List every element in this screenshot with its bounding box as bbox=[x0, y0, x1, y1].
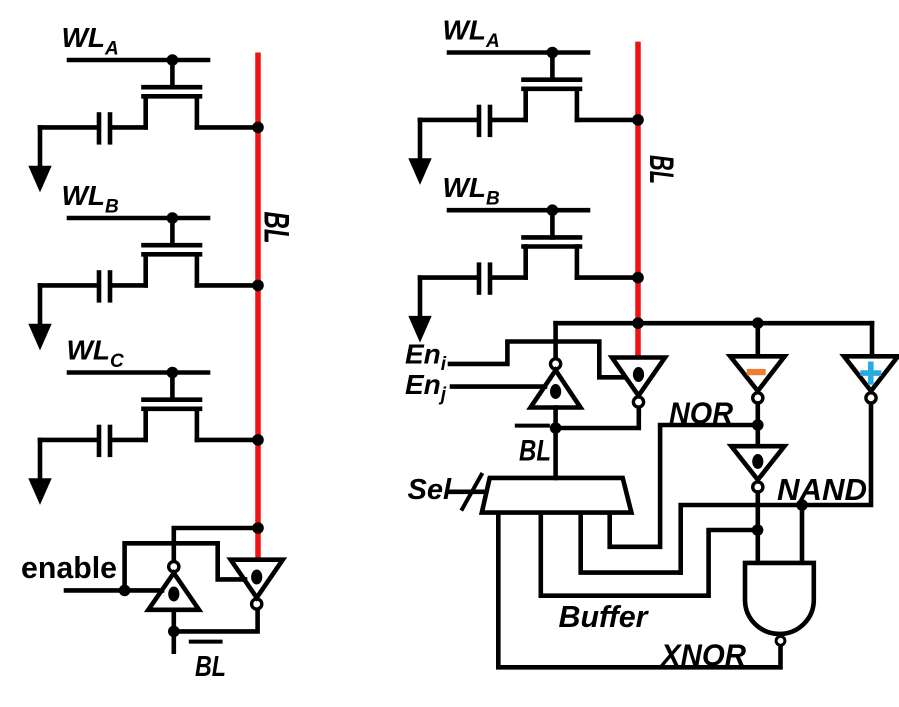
wire transistor to bitline A-left bbox=[197, 125, 258, 130]
tristate inverter U2 body dot bbox=[251, 570, 262, 585]
transistor MA-left gate bar bbox=[144, 85, 201, 90]
plus buffer U6 output bubble bbox=[866, 393, 876, 403]
wire transistor to bitline B-left bbox=[197, 283, 258, 288]
U7 output to NAND gate wire bbox=[755, 493, 760, 563]
minus buffer U5 minus sign bbox=[747, 369, 766, 375]
gate junction node C-left bbox=[167, 367, 179, 379]
transistor MA-right gate bar bbox=[524, 77, 581, 82]
wire ground to cap B-right bbox=[420, 275, 477, 280]
transistor MB-left gate bar bbox=[144, 243, 201, 248]
gate junction node B-left bbox=[167, 212, 179, 224]
NAND gate G1 bbox=[745, 563, 814, 634]
bitline junction node B-left bbox=[252, 280, 264, 292]
label BLbar (right) bbox=[519, 435, 551, 468]
plus buffer U6 plus sign bbox=[860, 362, 881, 385]
ground stem C-left bbox=[38, 440, 43, 478]
label WL_A (right) bbox=[443, 15, 500, 53]
label NAND bbox=[777, 472, 867, 507]
svg-text:enable: enable bbox=[21, 550, 117, 585]
transistor MB-right channel bar bbox=[524, 244, 581, 249]
transistor MB-right gate bar bbox=[524, 235, 581, 240]
XNOR output wire bbox=[498, 513, 780, 668]
ground stem A-left bbox=[38, 127, 43, 165]
rail corner to plus buffer bbox=[870, 323, 875, 356]
capacitor CA-right left plate bbox=[477, 107, 482, 135]
buffer tap junction bbox=[752, 524, 764, 536]
tristate inverter U4 (down, on BL) bbox=[612, 358, 665, 396]
capacitor CC-left right plate bbox=[108, 427, 113, 455]
label Sel bbox=[408, 474, 452, 506]
rail wire BL to keeper/ops bbox=[556, 321, 872, 326]
ground arrow B-right bbox=[408, 316, 431, 343]
transistor MB-right source drop wire bbox=[523, 247, 528, 278]
tristate inverter U4 body dot bbox=[633, 367, 644, 382]
gate stem wire C-left bbox=[170, 373, 175, 400]
keeper bottom stem wire bbox=[172, 610, 177, 652]
label En_i bbox=[405, 339, 447, 376]
ground arrow B-left bbox=[28, 324, 51, 351]
label WL_A (left) bbox=[62, 22, 119, 60]
ground arrow A-right bbox=[408, 158, 431, 185]
NAND net to mux wire bbox=[581, 513, 681, 573]
label WL_B (right) bbox=[443, 172, 501, 210]
buffer tap wire bbox=[541, 513, 758, 596]
tristate inverter U3 (up) bbox=[531, 370, 581, 407]
plus buffer U6 (down) bbox=[844, 356, 898, 391]
En_j wire bbox=[452, 384, 545, 389]
transistor MB-left drain drop wire bbox=[195, 254, 200, 285]
tristate inverter U1 body dot bbox=[168, 587, 179, 602]
bit line BL (right, red) bbox=[635, 42, 641, 358]
gate junction node B-right bbox=[547, 204, 559, 216]
svg-text:BL: BL bbox=[195, 651, 226, 683]
capacitor CC-left left plate bbox=[97, 427, 102, 455]
inverter U7 body dot bbox=[752, 454, 763, 469]
wire cap to transistor A-left bbox=[112, 125, 146, 130]
capacitor CB-right left plate bbox=[477, 265, 482, 293]
enable routing wire to U2 bbox=[125, 543, 245, 590]
wire transistor to bitline A-right bbox=[577, 118, 638, 123]
wire ground to cap B-left bbox=[40, 283, 97, 288]
wire cap to transistor A-right bbox=[492, 118, 526, 123]
ground stem B-left bbox=[38, 285, 43, 323]
gate stem wire A-left bbox=[170, 60, 175, 87]
rail to U3 bubble wire bbox=[553, 323, 558, 357]
svg-text:NAND: NAND bbox=[777, 472, 867, 507]
rail junction at minus buffer bbox=[752, 317, 764, 329]
ground arrow A-left bbox=[28, 166, 51, 193]
rail junction on BL bbox=[632, 317, 644, 329]
BLbar node junction bbox=[550, 422, 562, 434]
enable wire bbox=[66, 588, 162, 593]
Sel wire bbox=[450, 489, 487, 494]
NAND net junction bbox=[796, 499, 808, 511]
NOR node junction bbox=[752, 419, 764, 431]
bitline junction node A-right bbox=[632, 114, 644, 126]
svg-text:Buffer: Buffer bbox=[559, 599, 650, 634]
transistor MB-left source drop wire bbox=[143, 254, 148, 285]
minus buffer stem bbox=[755, 323, 760, 356]
keeper junction on BL bbox=[252, 522, 264, 534]
wire cap to transistor B-left bbox=[112, 283, 146, 288]
tristate inverter U2 output bubble bbox=[252, 599, 262, 609]
tristate inverter U1 output bubble bbox=[169, 562, 179, 572]
label NOR bbox=[669, 396, 734, 431]
bitline junction node A-left bbox=[252, 122, 264, 134]
ground stem B-right bbox=[418, 278, 423, 316]
keeper BLbar node bbox=[168, 626, 180, 638]
word line C-left bbox=[69, 370, 208, 375]
word line B-left bbox=[69, 216, 208, 221]
label XNOR bbox=[659, 638, 746, 673]
capacitor CA-left right plate bbox=[108, 115, 113, 143]
BLbar to mux input wire bbox=[553, 428, 558, 478]
wire transistor to bitline C-left bbox=[197, 438, 258, 443]
word line A-right bbox=[449, 50, 588, 55]
svg-text:BL: BL bbox=[642, 155, 680, 184]
transistor MA-left source drop wire bbox=[143, 96, 148, 127]
transistor MC-left source drop wire bbox=[143, 409, 148, 440]
wire BLbar to U4 output bbox=[556, 408, 639, 428]
keeper wire BLbar to U2 output bbox=[174, 610, 258, 631]
transistor MA-right drain drop wire bbox=[575, 89, 580, 120]
label WL_C (left) bbox=[67, 335, 125, 373]
capacitor CA-right right plate bbox=[488, 107, 493, 135]
bitline junction node B-right bbox=[632, 272, 644, 284]
transistor MB-right drain drop wire bbox=[575, 247, 580, 278]
enable junction node bbox=[119, 585, 131, 597]
word line B-right bbox=[449, 208, 588, 213]
capacitor CB-right right plate bbox=[488, 265, 493, 293]
gate junction node A-left bbox=[167, 54, 179, 66]
wire ground to cap C-left bbox=[40, 438, 97, 443]
transistor MA-right source drop wire bbox=[523, 89, 528, 120]
tristate inverter U3 output bubble bbox=[551, 359, 561, 369]
transistor MC-left channel bar bbox=[144, 406, 201, 411]
overbar of BLbar label (right) bbox=[517, 424, 548, 428]
wire ground to cap A-right bbox=[420, 118, 477, 123]
wire transistor to bitline B-right bbox=[577, 275, 638, 280]
gate stem wire A-right bbox=[550, 53, 555, 80]
transistor MA-left drain drop wire bbox=[195, 96, 200, 127]
minus output to NOR node wire bbox=[755, 404, 760, 447]
transistor MC-left gate bar bbox=[144, 397, 201, 402]
NAND gate right input wire bbox=[800, 505, 805, 563]
tristate inverter U2 (down) bbox=[231, 560, 283, 598]
label WL_B (left) bbox=[62, 180, 120, 218]
gate stem wire B-left bbox=[170, 218, 175, 245]
label BL rotated (left) bbox=[257, 212, 296, 244]
inverter U7 (down) bbox=[731, 446, 784, 480]
transistor MB-left channel bar bbox=[144, 252, 201, 257]
minus buffer U5 (down) bbox=[730, 356, 784, 391]
ground stem A-right bbox=[418, 120, 423, 158]
label Buffer bbox=[559, 599, 650, 634]
mux M1 (trapezoid) bbox=[482, 478, 632, 513]
bit line BL (left, red) bbox=[255, 53, 261, 560]
keeper feedback wire top bbox=[174, 528, 258, 560]
label BL rotated (right) bbox=[642, 155, 680, 184]
capacitor CB-left right plate bbox=[108, 273, 113, 301]
wire cap to transistor C-left bbox=[112, 438, 146, 443]
NOR routing wire to mux bbox=[610, 425, 758, 547]
ground arrow C-left bbox=[28, 478, 51, 505]
transistor MA-right channel bar bbox=[524, 87, 581, 92]
inverter U7 output bubble bbox=[753, 482, 763, 492]
svg-text:BL: BL bbox=[257, 212, 296, 244]
Sel bus slash bbox=[461, 473, 482, 511]
label enable bbox=[21, 550, 117, 585]
capacitor CA-left left plate bbox=[97, 115, 102, 143]
minus buffer U5 output bubble bbox=[753, 393, 763, 403]
NAND gate G1 output bubble bbox=[776, 636, 785, 645]
gate junction node A-right bbox=[547, 47, 559, 59]
capacitor CB-left left plate bbox=[97, 273, 102, 301]
wire cap to transistor B-right bbox=[492, 275, 526, 280]
tristate inverter U1 (up) bbox=[148, 573, 199, 610]
NAND net wire bbox=[681, 405, 871, 573]
word line A-left bbox=[69, 58, 208, 63]
wire U3 base to BLbar node bbox=[553, 408, 558, 429]
bitline junction node C-left bbox=[252, 434, 264, 446]
label BLbar (left) bbox=[195, 651, 226, 683]
transistor MC-left drain drop wire bbox=[195, 409, 200, 440]
label En_j bbox=[405, 369, 447, 406]
transistor MA-left channel bar bbox=[144, 94, 201, 99]
gate stem wire B-right bbox=[550, 210, 555, 237]
wire ground to cap A-left bbox=[40, 125, 97, 130]
overbar of BLbar label (left) bbox=[191, 640, 221, 644]
tristate inverter U4 output bubble bbox=[633, 397, 643, 407]
svg-text:BL: BL bbox=[519, 435, 551, 468]
tristate inverter U3 body dot bbox=[550, 384, 561, 399]
svg-text:XNOR: XNOR bbox=[659, 638, 746, 673]
svg-text:Sel: Sel bbox=[408, 474, 452, 506]
En_i routing wire bbox=[450, 342, 624, 378]
